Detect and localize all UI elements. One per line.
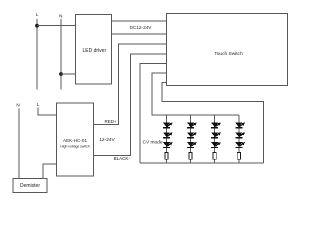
svg-text:L: L (37, 102, 40, 107)
svg-text:Demister: Demister (20, 183, 40, 189)
svg-text:DC12-24V: DC12-24V (130, 25, 153, 30)
svg-text:BLACK-: BLACK- (114, 156, 131, 161)
svg-text:N: N (59, 13, 62, 18)
svg-text:L: L (36, 12, 39, 17)
svg-text:CV mode: CV mode (143, 140, 163, 146)
svg-text:RED+: RED+ (105, 119, 118, 124)
svg-text:12-24V: 12-24V (99, 137, 115, 143)
svg-text:Touch Switch: Touch Switch (214, 51, 243, 57)
svg-text:AEK-HC-01: AEK-HC-01 (63, 138, 87, 143)
svg-text:High voltage switch: High voltage switch (60, 144, 89, 148)
svg-text:LED driver: LED driver (82, 48, 106, 54)
svg-text:N: N (16, 102, 19, 107)
